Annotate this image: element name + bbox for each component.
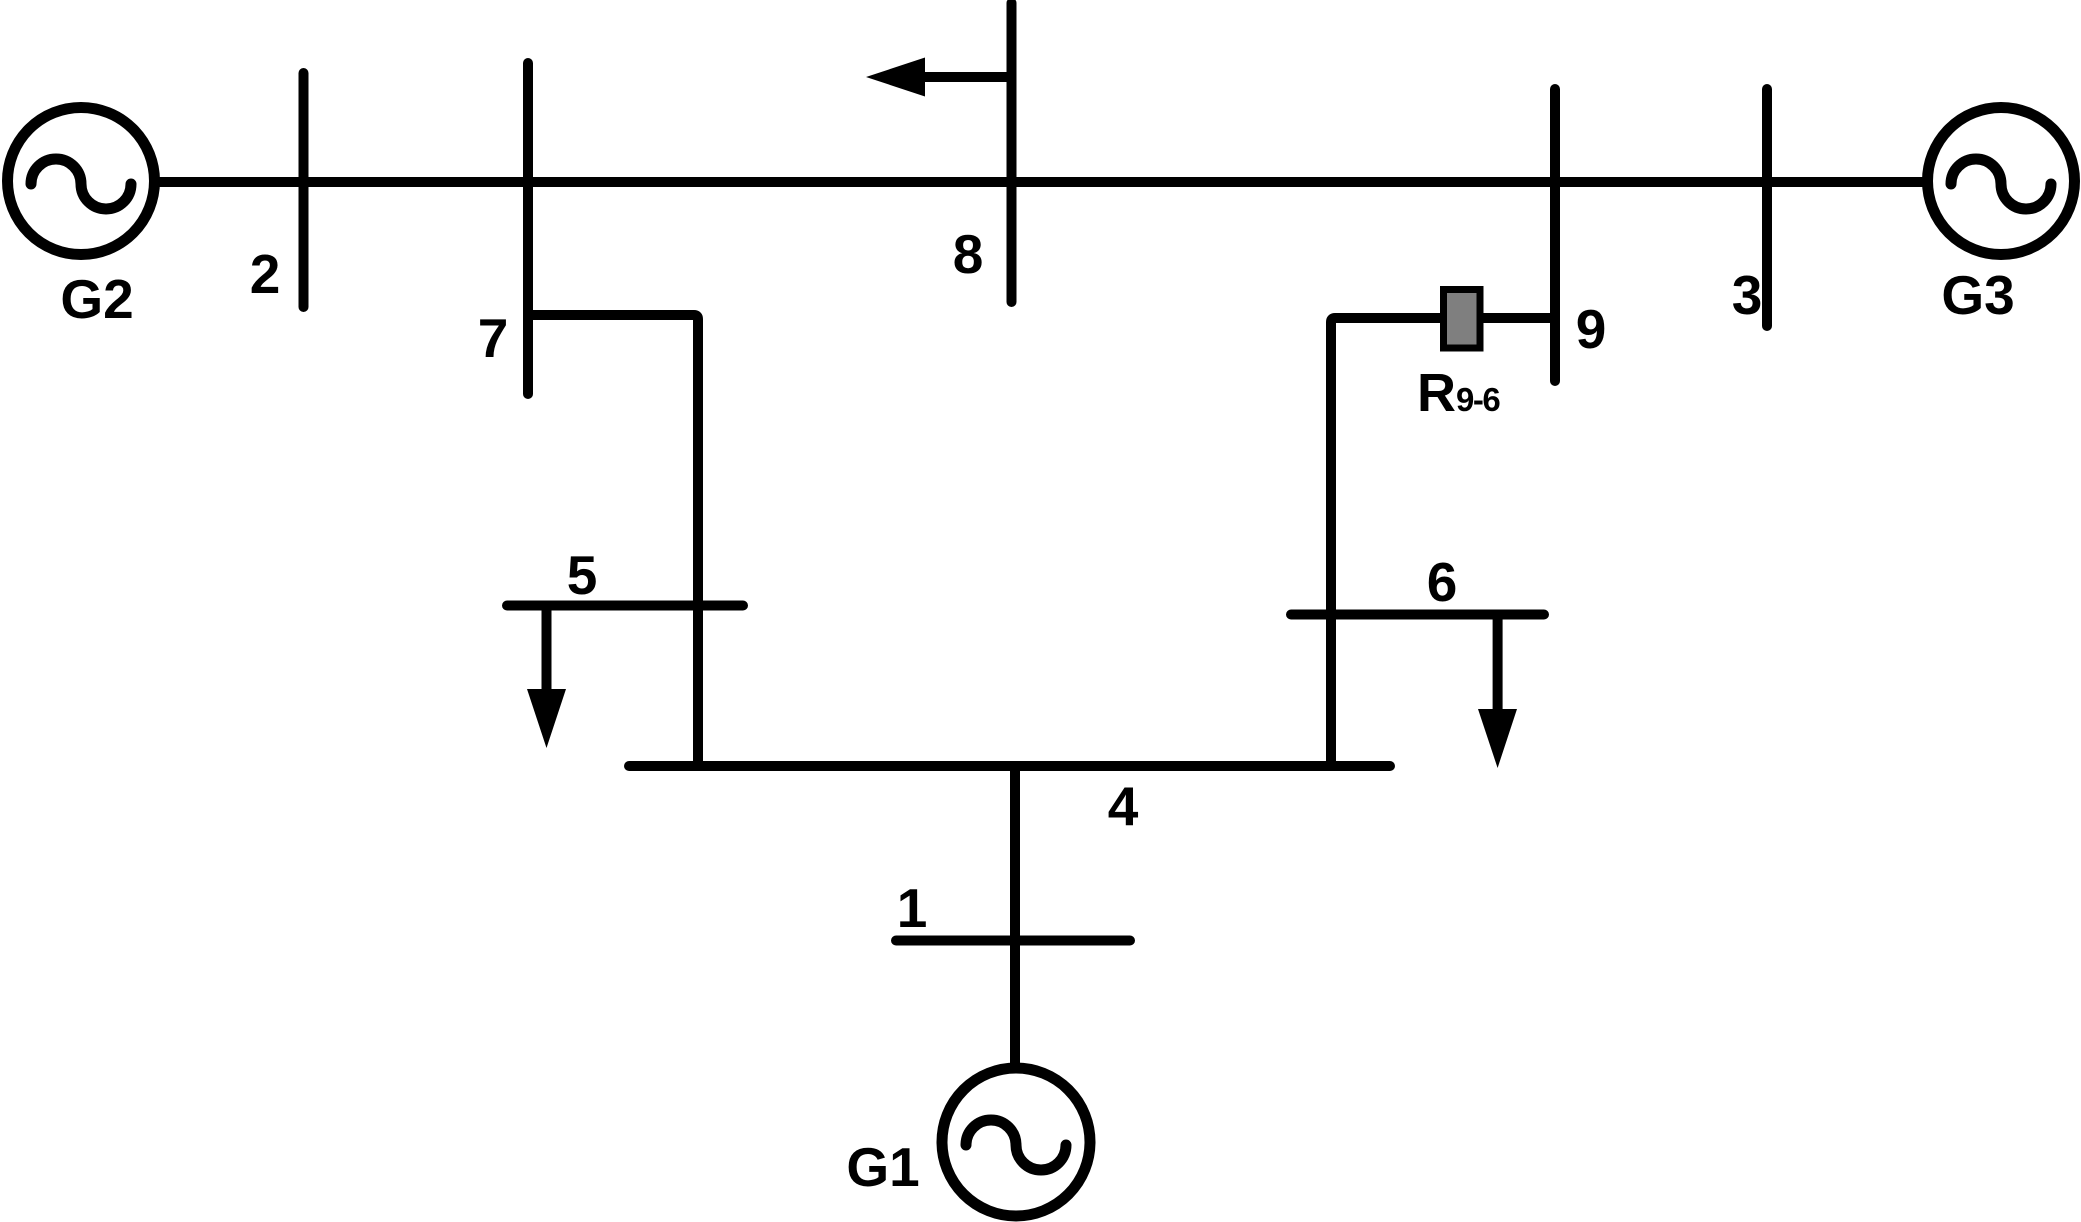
generator G1 — [942, 1068, 1090, 1216]
bus 8 — [1007, 3, 1017, 302]
generator G2 — [8, 108, 155, 255]
wire: main top bus tie line — [158, 177, 1924, 187]
wire: bus 4 to generator G1 — [1010, 766, 1020, 1066]
bus 3 — [1762, 89, 1772, 326]
bus 9 — [1550, 89, 1560, 381]
relay R9-6 — [1444, 290, 1481, 349]
svg-text:G1: G1 — [846, 1136, 919, 1198]
wire: line 9-6-4 — [1331, 318, 1555, 766]
svg-text:G3: G3 — [1941, 264, 2014, 326]
bus 4 — [629, 761, 1390, 771]
load arrow at bus 5 — [527, 606, 566, 749]
bus 1 — [896, 936, 1130, 946]
bus 5 — [507, 601, 743, 611]
svg-text:9: 9 — [1576, 298, 1607, 360]
svg-text:6: 6 — [1427, 551, 1458, 613]
svg-text:4: 4 — [1108, 775, 1139, 837]
wire: line 7-5-4 — [528, 315, 698, 766]
load arrow at bus 6 — [1478, 615, 1517, 769]
svg-text:G2: G2 — [60, 268, 133, 330]
svg-text:R9-6: R9-6 — [1417, 363, 1500, 423]
svg-text:5: 5 — [567, 544, 598, 606]
svg-text:2: 2 — [250, 243, 281, 305]
svg-text:3: 3 — [1732, 264, 1763, 326]
generator G3 — [1928, 108, 2075, 255]
svg-text:8: 8 — [953, 223, 984, 285]
bus 6 — [1291, 610, 1544, 620]
svg-text:7: 7 — [478, 307, 509, 369]
bus 7 — [523, 63, 533, 394]
load arrow at bus 8 — [866, 58, 1012, 97]
svg-text:1: 1 — [897, 877, 928, 939]
bus 2 — [299, 73, 309, 307]
